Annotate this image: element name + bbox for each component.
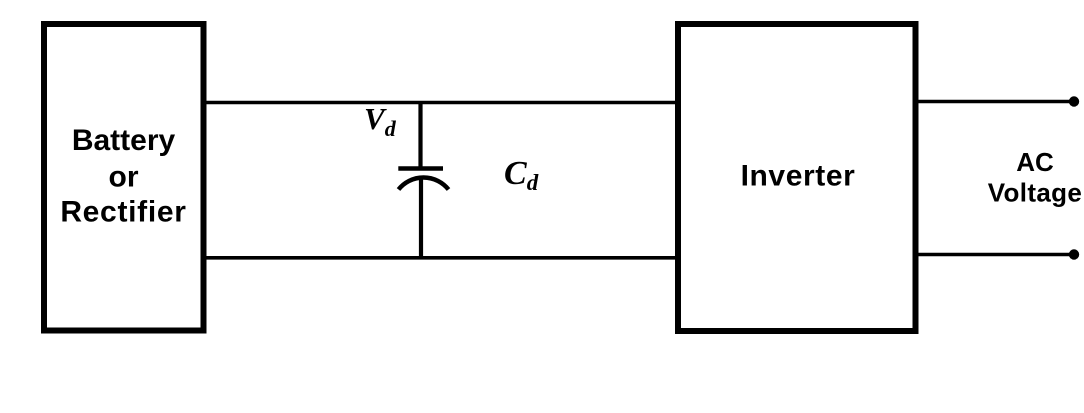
- svg-text:Cd: Cd: [504, 155, 539, 195]
- wire: bottom DC bus: [207, 256, 679, 260]
- block: Battery or Rectifier: [44, 24, 204, 331]
- svg-text:AC: AC: [1016, 147, 1054, 177]
- capacitor Cd: [398, 103, 448, 260]
- svg-text:Voltage: Voltage: [988, 178, 1082, 208]
- svg-text:Inverter: Inverter: [741, 159, 856, 192]
- svg-text:Battery: Battery: [72, 124, 176, 157]
- node: AC terminal bottom: [1069, 249, 1079, 259]
- block: Inverter: [678, 24, 916, 331]
- node: AC terminal top: [1069, 96, 1079, 106]
- label Cd: [504, 155, 539, 195]
- wire: AC output bottom: [919, 253, 1075, 257]
- label Vd: [364, 101, 397, 141]
- svg-text:or: or: [109, 160, 139, 193]
- wire: top DC bus: [207, 101, 679, 105]
- svg-text:Rectifier: Rectifier: [60, 196, 186, 229]
- wire: AC output top: [919, 100, 1075, 104]
- svg-text:Vd: Vd: [364, 101, 397, 141]
- label AC Voltage: [988, 147, 1082, 208]
